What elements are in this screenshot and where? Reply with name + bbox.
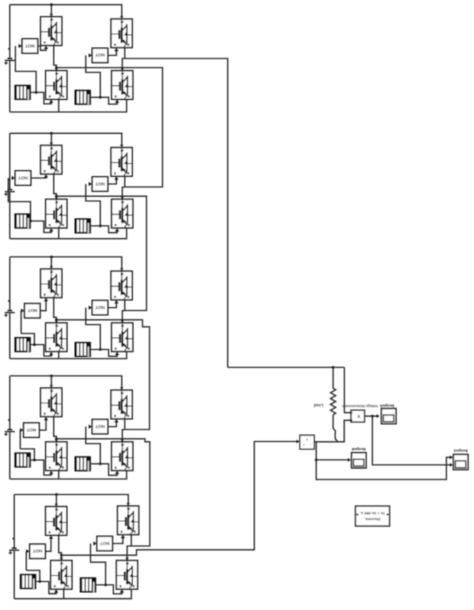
svg-text:Scope6: Scope6 [351, 447, 366, 452]
svg-text:NOT: NOT [100, 541, 110, 546]
svg-text:NOT: NOT [95, 305, 105, 310]
svg-text:Voltage Measurement: Voltage Measurement [342, 404, 378, 408]
svg-text:v: v [357, 413, 360, 419]
svg-text:NOT: NOT [25, 43, 35, 48]
svg-text:Load: Load [313, 403, 323, 408]
svg-text:Scope5: Scope5 [379, 404, 394, 409]
svg-text:Scope1: Scope1 [453, 449, 468, 454]
svg-text:NOT: NOT [32, 549, 42, 554]
svg-text:+: + [303, 443, 305, 447]
svg-text:NOT: NOT [95, 53, 105, 58]
svg-text:i: i [306, 438, 307, 443]
svg-text:NOT: NOT [95, 424, 105, 429]
svg-text:NOT: NOT [95, 181, 105, 186]
svg-text:NOT: NOT [18, 175, 28, 180]
svg-text:Ts = 2e-005 s.: Ts = 2e-005 s. [360, 511, 385, 516]
svg-text:Discrete,: Discrete, [364, 517, 380, 522]
svg-text:NOT: NOT [26, 427, 36, 432]
svg-text:NOT: NOT [27, 308, 37, 313]
